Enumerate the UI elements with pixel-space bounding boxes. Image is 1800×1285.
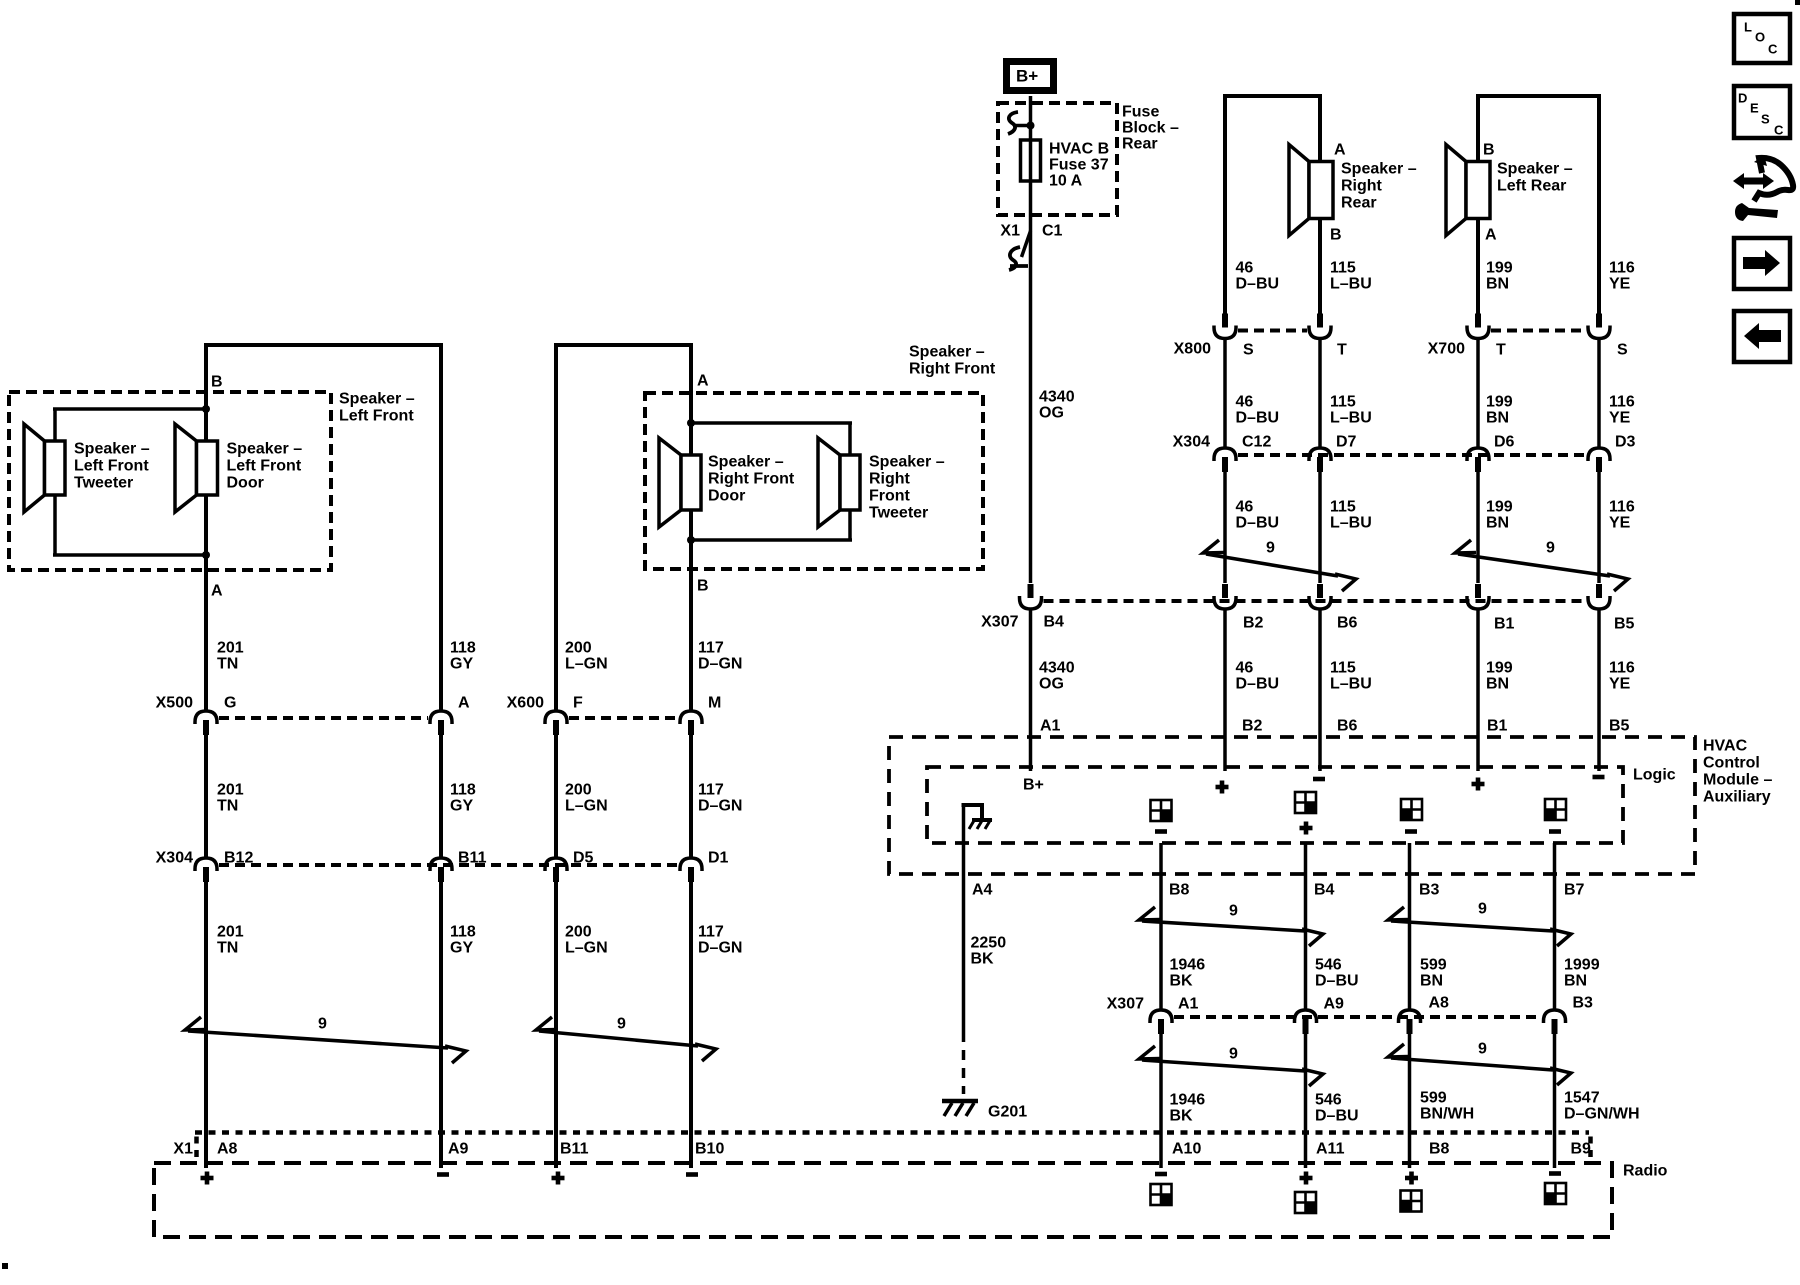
wire 599 BN from B3: [1408, 843, 1412, 1009]
svg-text:L–BU: L–BU: [1330, 515, 1372, 532]
svg-text:X500: X500: [156, 695, 193, 712]
wire label 116 YE hvac: [1609, 660, 1635, 693]
radio sign + B11: [552, 1172, 565, 1185]
svg-text:T: T: [1496, 342, 1506, 359]
svg-text:D–GN: D–GN: [698, 940, 742, 957]
wire label 116 YE: [1609, 260, 1635, 293]
svg-text:BK: BK: [1170, 973, 1194, 990]
svg-text:YE: YE: [1609, 515, 1631, 532]
svg-text:B9: B9: [1571, 1141, 1592, 1158]
wire 1999 BN from B7: [1553, 843, 1557, 1009]
pin sign + at B2: [1216, 781, 1229, 794]
wire label 46 D-BU: [1236, 260, 1280, 293]
svg-text:10 A: 10 A: [1049, 173, 1083, 190]
svg-text:1547: 1547: [1564, 1090, 1600, 1107]
svg-text:X600: X600: [507, 695, 544, 712]
icon: DESC hyperlink box: [1734, 86, 1790, 138]
Radio dashed box: [154, 1163, 1612, 1237]
wire 1547 D-GN-WH to radio: [1553, 1032, 1557, 1168]
svg-text:Speaker –: Speaker –: [74, 441, 150, 458]
radio sign - B10: [686, 1172, 698, 1177]
wire 199 BN lower segment: [1476, 470, 1480, 583]
wire label 200 L-GN mid: [565, 782, 608, 815]
wire label 118 GY mid: [450, 782, 476, 815]
connector X500: [156, 695, 470, 735]
pin B label right rear: [1330, 227, 1342, 244]
svg-text:Left Front: Left Front: [227, 458, 302, 475]
svg-text:X304: X304: [1173, 434, 1210, 451]
svg-text:200: 200: [565, 640, 592, 657]
svg-text:D5: D5: [573, 850, 594, 867]
speaker output icon B4: [1295, 792, 1316, 835]
svg-text:YE: YE: [1609, 410, 1631, 427]
wire: left rear B vertical: [1476, 94, 1480, 314]
label: Speaker - Left Front: [339, 391, 415, 425]
module pin label B3: [1419, 882, 1440, 899]
svg-text:115: 115: [1330, 394, 1356, 411]
radio sign - A9: [437, 1172, 449, 1177]
wire 1946 BK to radio: [1159, 1032, 1163, 1168]
pin A label (speaker right front): [697, 373, 709, 390]
wire label 115 L-BU lower: [1330, 499, 1372, 532]
svg-text:200: 200: [565, 782, 592, 799]
svg-text:A9: A9: [448, 1141, 469, 1158]
wire 46 D-BU into HVAC plus: [1223, 608, 1227, 771]
svg-text:BN: BN: [1420, 973, 1443, 990]
connector X1 radio dotted row: [195, 1133, 1591, 1162]
wire 46 D-BU lower segment: [1223, 470, 1227, 583]
svg-text:GY: GY: [450, 798, 473, 815]
svg-text:L–GN: L–GN: [565, 798, 608, 815]
svg-text:A: A: [1334, 142, 1346, 159]
svg-text:4340: 4340: [1039, 660, 1075, 677]
svg-text:X800: X800: [1174, 341, 1211, 358]
wire label 116 YE mid: [1609, 394, 1635, 427]
svg-text:2250: 2250: [971, 935, 1007, 952]
svg-text:Speaker –: Speaker –: [708, 454, 784, 471]
svg-text:117: 117: [698, 640, 724, 657]
svg-text:D: D: [1738, 91, 1747, 106]
svg-text:B6: B6: [1337, 718, 1358, 735]
svg-text:Fuse 37: Fuse 37: [1049, 157, 1109, 174]
HVAC Control Module - Auxiliary dashed box: [889, 737, 1695, 874]
svg-text:Speaker –: Speaker –: [227, 441, 303, 458]
svg-text:118: 118: [450, 782, 476, 799]
pin A label left rear: [1485, 227, 1497, 244]
svg-text:O: O: [1755, 30, 1765, 45]
svg-text:B3: B3: [1573, 995, 1594, 1012]
radio speaker icon A10: [1151, 1184, 1172, 1205]
wire 546 D-BU to radio: [1304, 1032, 1308, 1168]
svg-text:Speaker –: Speaker –: [339, 391, 415, 408]
svg-text:Speaker –: Speaker –: [1497, 161, 1573, 178]
svg-text:Door: Door: [708, 488, 745, 505]
wire: right front negative vertical (speaker B to radio B10): [689, 343, 693, 1168]
svg-text:B: B: [1483, 142, 1495, 159]
svg-text:B2: B2: [1242, 718, 1263, 735]
svg-text:Right Front: Right Front: [909, 361, 996, 378]
svg-text:YE: YE: [1609, 676, 1631, 693]
wire: Speaker Right Rear top edge: [1223, 94, 1322, 98]
wire: right front positive vertical (radio B11 to speaker A): [554, 343, 558, 1168]
wire label 46 D-BU lower: [1236, 499, 1280, 532]
connector X304 rear row: [1173, 434, 1636, 472]
module pin label B7: [1564, 882, 1585, 899]
svg-text:Control: Control: [1703, 755, 1760, 772]
module pin label B4: [1314, 882, 1335, 899]
svg-text:B+: B+: [1016, 66, 1038, 85]
wire 546 D-BU from B4: [1304, 843, 1308, 1009]
radio pin label B10: [695, 1141, 724, 1158]
svg-text:Right: Right: [869, 471, 911, 488]
svg-text:TN: TN: [217, 656, 238, 673]
svg-text:Rear: Rear: [1341, 195, 1377, 212]
wire label 199 BN hvac: [1486, 660, 1513, 693]
svg-text:115: 115: [1330, 499, 1356, 516]
wire: right rear B vertical: [1318, 94, 1322, 314]
svg-text:Left Rear: Left Rear: [1497, 178, 1566, 195]
svg-text:X1: X1: [173, 1141, 193, 1158]
svg-text:B11: B11: [560, 1141, 589, 1158]
svg-text:B12: B12: [224, 850, 253, 867]
svg-text:115: 115: [1330, 260, 1356, 277]
svg-text:201: 201: [217, 924, 244, 941]
wire label 46 D-BU mid: [1236, 394, 1280, 427]
svg-text:B1: B1: [1487, 718, 1508, 735]
svg-text:B5: B5: [1614, 616, 1635, 633]
svg-text:L–GN: L–GN: [565, 656, 608, 673]
wire label 116 YE lower: [1609, 499, 1635, 532]
svg-text:Auxiliary: Auxiliary: [1703, 789, 1771, 806]
wire 115 L-BU lower segment: [1318, 470, 1322, 583]
connector X600: [507, 695, 722, 735]
radio pin label B8: [1429, 1141, 1450, 1158]
pin sign + at B1: [1472, 778, 1485, 791]
svg-text:199: 199: [1486, 260, 1513, 277]
svg-text:9: 9: [318, 1016, 327, 1033]
wire label 115 L-BU hvac: [1330, 660, 1372, 693]
svg-text:L–BU: L–BU: [1330, 410, 1372, 427]
svg-text:C12: C12: [1242, 434, 1271, 451]
svg-text:A8: A8: [217, 1141, 238, 1158]
svg-text:BN/WH: BN/WH: [1420, 1106, 1474, 1123]
label: Fuse Block - Rear: [1122, 104, 1179, 153]
wire label 200 L-GN lower: [565, 924, 608, 957]
svg-text:T: T: [1337, 342, 1347, 359]
wire label 599 BN-WH: [1420, 1090, 1474, 1123]
wire label 46 D-BU hvac: [1236, 660, 1280, 693]
svg-text:B4: B4: [1314, 882, 1335, 899]
svg-text:B5: B5: [1609, 718, 1630, 735]
label: Speaker - Right Front Tweeter: [869, 454, 945, 522]
radio pin label A8: [217, 1141, 238, 1158]
wire 116 YE lower segment: [1597, 470, 1601, 583]
svg-text:Right Front: Right Front: [708, 471, 795, 488]
wire 116 YE segment: [1597, 338, 1601, 448]
wire: battery feed into fuse block: [1029, 96, 1033, 140]
svg-text:1946: 1946: [1170, 1092, 1206, 1109]
wire: right tweeter loop: [691, 423, 852, 540]
fuse HVAC B Fuse 37 10A: [1021, 140, 1110, 190]
hvac pin label B1: [1487, 718, 1508, 735]
node: junction B: [202, 405, 210, 413]
wire label 201 TN upper: [217, 640, 244, 673]
speaker symbol: Left Front Tweeter: [24, 424, 65, 512]
svg-text:L–BU: L–BU: [1330, 676, 1372, 693]
wire 4340 OG into HVAC B+: [1029, 608, 1033, 771]
svg-text:C: C: [1774, 123, 1784, 138]
svg-text:B6: B6: [1337, 615, 1358, 632]
svg-text:9: 9: [1266, 540, 1275, 557]
svg-text:46: 46: [1236, 260, 1254, 277]
wire 46 D-BU segment: [1223, 338, 1227, 448]
connector X800: [1174, 314, 1347, 359]
svg-text:9: 9: [1478, 901, 1487, 918]
svg-text:OG: OG: [1039, 405, 1064, 422]
wire label 4340 OG (upper): [1039, 389, 1075, 422]
svg-text:HVAC: HVAC: [1703, 738, 1748, 755]
radio speaker icon B8: [1401, 1191, 1422, 1212]
svg-text:B1: B1: [1494, 616, 1515, 633]
ground G201 symbol: [942, 1101, 978, 1116]
radio pin label A9: [448, 1141, 469, 1158]
wire label 1547 D-GN-WH: [1564, 1090, 1640, 1123]
svg-text:A: A: [697, 373, 709, 390]
svg-text:X700: X700: [1428, 341, 1465, 358]
wire 1946 BK from B8: [1159, 843, 1163, 1009]
svg-text:599: 599: [1420, 1090, 1447, 1107]
wire 115 L-BU into HVAC minus: [1318, 608, 1322, 771]
svg-text:D–GN: D–GN: [698, 798, 742, 815]
svg-text:A4: A4: [972, 882, 993, 899]
svg-text:B2: B2: [1243, 615, 1264, 632]
svg-text:116: 116: [1609, 660, 1635, 677]
svg-text:A10: A10: [1172, 1141, 1201, 1158]
svg-text:B4: B4: [1044, 614, 1065, 631]
label: Speaker - Right Front Door: [708, 454, 795, 505]
wire label 1946 BK lower: [1170, 1092, 1206, 1125]
svg-text:9: 9: [617, 1016, 626, 1033]
icon: harness tool glyph: [1733, 155, 1793, 221]
svg-text:S: S: [1761, 112, 1770, 127]
svg-text:B8: B8: [1169, 882, 1190, 899]
svg-text:Tweeter: Tweeter: [74, 475, 133, 492]
wire label 118 GY lower: [450, 924, 476, 957]
hvac pin label B6: [1337, 718, 1358, 735]
wire: tweeter loop: [53, 409, 206, 555]
twisted pair note 9 rear left: [1455, 540, 1628, 591]
svg-text:Speaker –: Speaker –: [869, 454, 945, 471]
svg-text:A: A: [211, 583, 223, 600]
svg-text:L–BU: L–BU: [1330, 276, 1372, 293]
radio pin label B11: [560, 1141, 589, 1158]
page corner mark top right: [1795, 0, 1800, 5]
label: Logic: [1633, 767, 1676, 784]
svg-text:Left Front: Left Front: [74, 458, 149, 475]
svg-text:117: 117: [698, 924, 724, 941]
svg-text:599: 599: [1420, 957, 1447, 974]
svg-text:C: C: [1768, 42, 1778, 57]
svg-text:C1: C1: [1042, 223, 1063, 240]
svg-text:9: 9: [1229, 903, 1238, 920]
svg-text:Right: Right: [1341, 178, 1383, 195]
dashed enclosure: Speaker - Right Front assembly: [645, 393, 983, 569]
svg-text:B: B: [211, 374, 223, 391]
svg-text:A1: A1: [1040, 718, 1061, 735]
svg-text:Fuse: Fuse: [1122, 104, 1159, 121]
speaker symbol: Left Rear: [1446, 145, 1490, 236]
svg-text:1999: 1999: [1564, 957, 1600, 974]
svg-text:X307: X307: [1107, 996, 1144, 1013]
svg-text:D7: D7: [1336, 434, 1357, 451]
wire: Speaker Left Front circuit top edge B-side: [204, 343, 443, 347]
svg-text:B3: B3: [1419, 882, 1440, 899]
svg-text:B+: B+: [1023, 777, 1044, 794]
wire 116 YE into HVAC minus2: [1597, 608, 1601, 771]
wire 599 BN-WH to radio: [1408, 1032, 1412, 1168]
svg-text:X1: X1: [1000, 223, 1020, 240]
radio sign + B8: [1405, 1172, 1418, 1185]
svg-text:B11: B11: [458, 850, 487, 867]
wire label 199 BN mid: [1486, 394, 1513, 427]
svg-text:546: 546: [1315, 957, 1342, 974]
svg-text:D1: D1: [708, 850, 729, 867]
wire: fuse output through connector X1 pin C1: [1029, 181, 1033, 583]
label: Speaker - Left Rear: [1497, 161, 1573, 195]
twisted pair note 9 rear right: [1203, 540, 1356, 591]
svg-text:4340: 4340: [1039, 389, 1075, 406]
radio speaker icon B9: [1545, 1183, 1566, 1204]
radio pin label B9: [1571, 1141, 1592, 1158]
label: Speaker - Left Front Tweeter: [74, 441, 150, 492]
radio pin label A11: [1316, 1141, 1345, 1158]
wire label 1999 BN: [1564, 957, 1600, 990]
svg-text:Left Front: Left Front: [339, 408, 414, 425]
speaker output icon B7: [1545, 799, 1566, 834]
connector X304 front row: [156, 850, 729, 882]
dashed enclosure: Speaker - Left Front assembly: [9, 392, 331, 570]
pin B label (speaker left front): [211, 374, 223, 391]
svg-text:B: B: [1330, 227, 1342, 244]
connector X1 C1 labels: [1000, 223, 1062, 240]
svg-text:BN: BN: [1486, 515, 1509, 532]
svg-text:B8: B8: [1429, 1141, 1450, 1158]
svg-text:116: 116: [1609, 499, 1635, 516]
twisted pair note 9 radio right: [1388, 1041, 1571, 1085]
wire: right rear A vertical: [1223, 94, 1227, 314]
wire label 4340 OG lower: [1039, 660, 1075, 693]
svg-text:D–BU: D–BU: [1236, 515, 1280, 532]
radio pin label A10: [1172, 1141, 1201, 1158]
svg-text:A1: A1: [1178, 996, 1199, 1013]
wire label 200 L-GN upper: [565, 640, 608, 673]
svg-text:D–BU: D–BU: [1236, 676, 1280, 693]
svg-text:D–BU: D–BU: [1236, 276, 1280, 293]
svg-text:BN: BN: [1486, 276, 1509, 293]
label: Speaker - Right Rear: [1341, 161, 1417, 212]
hvac pin label A1: [1040, 718, 1061, 735]
wire label 199 BN lower: [1486, 499, 1513, 532]
power feed B+ box: [1007, 62, 1054, 91]
twisted pair note 9 radio left: [1139, 1046, 1323, 1086]
fuse block dashed enclosure: [998, 103, 1117, 215]
svg-text:G201: G201: [988, 1104, 1027, 1121]
svg-text:116: 116: [1609, 260, 1635, 277]
svg-text:E: E: [1750, 101, 1759, 116]
svg-text:OG: OG: [1039, 676, 1064, 693]
svg-text:201: 201: [217, 782, 244, 799]
node: junction A: [202, 551, 210, 559]
svg-text:L: L: [1744, 20, 1752, 35]
svg-text:GY: GY: [450, 940, 473, 957]
wire label 201 TN mid: [217, 782, 244, 815]
svg-text:BK: BK: [971, 951, 995, 968]
svg-text:9: 9: [1546, 540, 1555, 557]
connector X307 row (top): [981, 584, 1634, 633]
twisted pair note 9 hvac right: [1388, 901, 1571, 946]
speaker symbol: Right Rear: [1289, 145, 1333, 236]
svg-text:9: 9: [1478, 1041, 1487, 1058]
wire label 115 L-BU: [1330, 260, 1372, 293]
module pin label A4: [972, 882, 993, 899]
wire: Speaker Right Front circuit top edge A-side: [554, 343, 693, 347]
svg-text:S: S: [1617, 342, 1628, 359]
svg-text:D–BU: D–BU: [1236, 410, 1280, 427]
connector X307 row (bottom): [1107, 995, 1593, 1034]
wire label 546 D-BU lower: [1315, 1092, 1359, 1125]
svg-text:116: 116: [1609, 394, 1635, 411]
svg-text:S: S: [1243, 342, 1254, 359]
svg-text:Speaker –: Speaker –: [1341, 161, 1417, 178]
svg-text:199: 199: [1486, 394, 1513, 411]
wire: left rear A vertical: [1597, 94, 1601, 314]
pin sign - at B6: [1313, 777, 1325, 782]
svg-text:201: 201: [217, 640, 244, 657]
wire 2250 BK dashed segment to ground: [962, 1032, 966, 1094]
wire: Speaker Left Rear top edge: [1476, 94, 1601, 98]
svg-text:9: 9: [1229, 1046, 1238, 1063]
icon: back arrow box: [1734, 311, 1790, 362]
wire 199 BN segment: [1476, 338, 1480, 448]
speaker output icon B3: [1401, 799, 1422, 834]
svg-text:Rear: Rear: [1122, 136, 1158, 153]
Logic dashed box: [927, 767, 1623, 843]
svg-text:D–BU: D–BU: [1315, 973, 1359, 990]
wire label 117 D-GN mid: [698, 782, 742, 815]
pin label B+ inside logic: [1023, 777, 1044, 794]
svg-text:TN: TN: [217, 940, 238, 957]
wire label 546 D-BU: [1315, 957, 1359, 990]
speaker symbol: Right Front Door: [659, 438, 701, 527]
svg-text:D–GN/WH: D–GN/WH: [1564, 1106, 1640, 1123]
svg-text:HVAC B: HVAC B: [1049, 141, 1109, 158]
wire label 2250 BK: [971, 935, 1007, 968]
svg-text:TN: TN: [217, 798, 238, 815]
radio speaker icon A11: [1295, 1192, 1316, 1213]
svg-text:X304: X304: [156, 850, 193, 867]
node: junction A right: [687, 419, 695, 427]
svg-text:46: 46: [1236, 394, 1254, 411]
speaker symbol: Right Front Tweeter: [818, 438, 860, 527]
label: Speaker - Left Front Door: [227, 441, 303, 492]
wire: left front positive vertical (radio A8 to speaker B): [204, 343, 208, 1168]
module pin label B8: [1169, 882, 1190, 899]
internal ground symbol (logic): [962, 805, 993, 843]
pin A label right rear: [1334, 142, 1346, 159]
wire label 117 D-GN lower: [698, 924, 742, 957]
speaker symbol: Left Front Door: [175, 424, 218, 512]
wire label 599 BN: [1420, 957, 1447, 990]
